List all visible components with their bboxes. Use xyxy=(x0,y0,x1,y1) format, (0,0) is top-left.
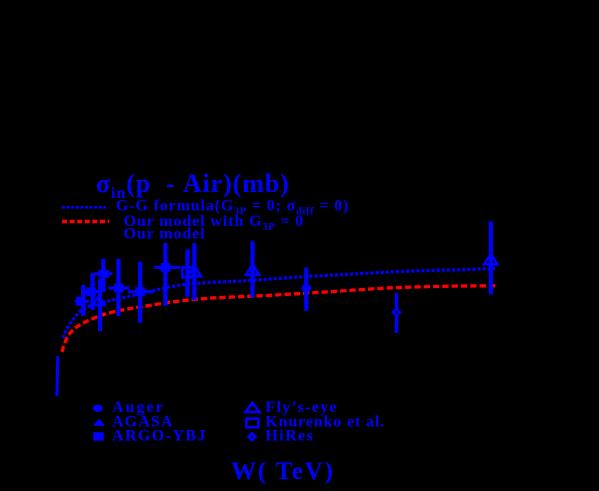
bottom legend marker square ARGO-YBJ xyxy=(93,432,104,441)
data point square S2 xyxy=(86,287,96,296)
data point open triangle T4 xyxy=(484,254,497,264)
bottom legend marker diamond HiRes xyxy=(247,431,258,442)
error bar S3 vertical xyxy=(101,259,105,292)
bottom legend marker open triangle Fly's-eye xyxy=(246,403,260,412)
svg-text:W( TeV): W( TeV) xyxy=(231,458,335,485)
data point square S4 xyxy=(114,284,124,293)
error bar S1 horizontal xyxy=(75,300,90,303)
svg-text:HiRes: HiRes xyxy=(265,428,314,445)
error bar S3 horizontal xyxy=(95,272,112,275)
error bar S1 vertical xyxy=(81,285,85,316)
data point square S1 ARGO-YBJ xyxy=(76,297,85,306)
data point diamond D1 HiRes xyxy=(391,308,402,317)
error bar S4 horizontal xyxy=(108,287,129,290)
error bar T2 vertical xyxy=(192,243,196,300)
error bar S5 vertical xyxy=(138,262,142,323)
error bar S2 vertical xyxy=(90,273,94,310)
svg-text:ARGO-YBJ: ARGO-YBJ xyxy=(112,428,207,445)
legend sample dotted G-G formula xyxy=(62,206,106,209)
error bar S2 horizontal xyxy=(85,290,100,293)
data point filled circle C1 Auger xyxy=(301,284,311,292)
data point open triangle T2 Fly's-eye xyxy=(188,266,201,276)
error bar Q1 vertical xyxy=(185,249,189,297)
red dashed curve: Our model with G3P=0 xyxy=(62,286,496,352)
error bar C1 vertical xyxy=(304,268,308,311)
legend sample dashed Our model with G3P=0 xyxy=(62,220,109,224)
svg-text:Our model: Our model xyxy=(124,226,206,243)
data point square S3 xyxy=(99,270,110,278)
error bar S5 horizontal xyxy=(128,290,153,293)
blue dotted curve: G-G formula xyxy=(55,356,59,396)
error bar S4 vertical xyxy=(116,259,120,316)
bottom legend marker open square Knurenko xyxy=(246,419,258,428)
data point square S5 xyxy=(135,287,145,296)
data point open triangle T3 xyxy=(246,264,259,274)
bottom legend marker triangle AGASA xyxy=(93,418,105,426)
error bar T4 vertical xyxy=(489,221,493,294)
data point square S6 xyxy=(161,263,171,272)
error bar D1 vertical xyxy=(395,293,399,333)
data point open triangle T1 AGASA xyxy=(93,296,105,305)
error bar T3 vertical xyxy=(250,241,254,297)
blue dotted curve continued xyxy=(63,268,495,338)
data point open square Q1 Knurenko xyxy=(182,267,194,277)
error bar S6 horizontal xyxy=(154,266,180,269)
bottom legend marker circle Auger xyxy=(93,405,103,412)
error bar T1 vertical xyxy=(98,279,102,331)
error bar S6 vertical xyxy=(163,243,167,306)
